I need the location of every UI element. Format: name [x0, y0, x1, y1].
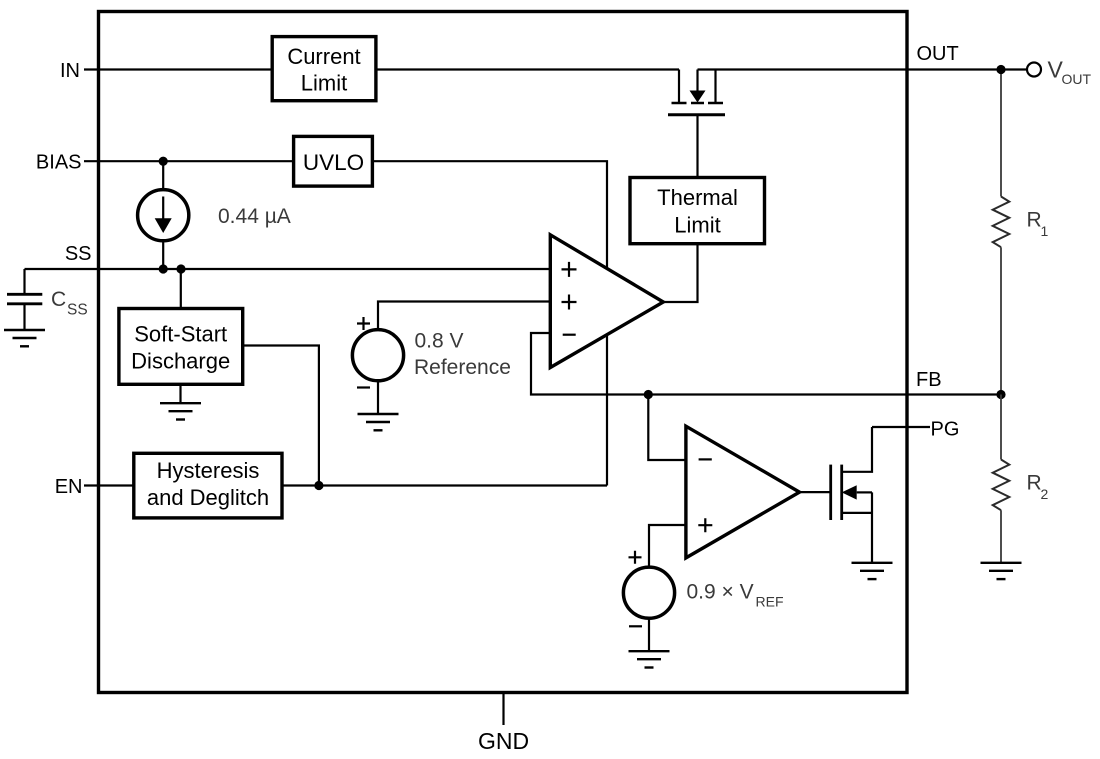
ground for V2	[648, 619, 650, 651]
node dot EN net junction	[314, 481, 323, 490]
block Thermal Limit	[630, 178, 765, 244]
ground for R2	[981, 563, 1022, 579]
transistor Q2 drain stub to PG line	[842, 427, 872, 472]
wire BIAS to current source to SS	[162, 161, 164, 269]
wire EN line	[84, 484, 607, 486]
plus input 1 of U1	[562, 262, 577, 277]
transistor Q1 bulk arrow	[696, 70, 698, 91]
svg-text:0.44 µA: 0.44 µA	[218, 205, 291, 228]
node dot FB to divider	[996, 390, 1005, 399]
svg-text:Reference: Reference	[414, 356, 511, 379]
plus sign of V1	[357, 317, 370, 330]
node dot OUT to divider	[996, 65, 1005, 74]
block Hysteresis and Deglitch	[134, 453, 282, 518]
svg-text:FB: FB	[916, 369, 942, 391]
transistor Q2 channel bar	[840, 465, 843, 520]
svg-text:SS: SS	[65, 243, 92, 265]
svg-text:GND: GND	[478, 728, 529, 754]
svg-text:Current: Current	[287, 44, 360, 69]
node dot SS junction 1	[159, 264, 168, 273]
svg-text:EN: EN	[55, 476, 83, 498]
svg-text:Hysteresis: Hysteresis	[157, 458, 260, 483]
plus sign of V2	[629, 551, 642, 564]
svg-text:IN: IN	[60, 60, 80, 82]
minus input of U1	[563, 334, 576, 336]
block Soft-Start Discharge	[119, 309, 243, 385]
svg-text:C: C	[51, 288, 66, 311]
op-amp U1 error amplifier	[550, 235, 663, 368]
wire Thermal Limit to pass FET gate	[696, 115, 698, 178]
resistor R1 bottom leg	[1000, 247, 1002, 394]
svg-text:SS: SS	[67, 302, 88, 319]
wire Q2 source to ground	[871, 492, 873, 562]
wire Soft-Start Discharge output to EN net	[243, 346, 319, 486]
comparator U2	[686, 426, 800, 558]
svg-text:1: 1	[1041, 223, 1049, 239]
terminal VOUT circle	[1027, 63, 1041, 77]
svg-text:2: 2	[1041, 486, 1049, 502]
minus input of U2	[699, 458, 712, 460]
node dot SS junction 2	[176, 264, 185, 273]
wire IN line	[84, 68, 679, 70]
wire U1 output to Thermal Limit	[663, 244, 697, 302]
wire U2 plus input to reference V2	[649, 525, 686, 568]
minus sign of V1	[357, 386, 370, 388]
resistor R1 top leg	[1000, 74, 1002, 197]
svg-text:UVLO: UVLO	[303, 150, 364, 175]
resistor R2 bottom leg	[1000, 510, 1002, 563]
transistor Q1 gate bar	[668, 113, 725, 116]
resistor R1 zigzag	[993, 197, 1010, 248]
svg-text:Limit: Limit	[301, 71, 347, 96]
ground for CSS	[4, 330, 45, 346]
current source arrow	[162, 197, 164, 221]
capacitor CSS wire	[23, 269, 25, 330]
svg-text:BIAS: BIAS	[36, 151, 82, 173]
transistor Q2 bulk arrow	[842, 485, 857, 499]
svg-text:REF: REF	[756, 594, 784, 610]
svg-text:OUT: OUT	[917, 43, 959, 65]
wire U2 output to PG FET gate	[800, 491, 831, 493]
svg-text:Soft-Start: Soft-Start	[134, 322, 227, 347]
resistor R2 zigzag	[993, 460, 1010, 511]
svg-text:and Deglitch: and Deglitch	[147, 485, 269, 510]
ground for Q2 source	[852, 563, 893, 579]
node dot FB junction	[644, 390, 653, 399]
wire FB to comparator inverting input	[648, 395, 686, 461]
resistor R2 top leg	[1000, 395, 1002, 460]
wire BIAS line and UVLO output down to EN net	[84, 161, 607, 485]
svg-text:0.8 V: 0.8 V	[415, 330, 464, 353]
transistor Q2 PG NMOS gate bar	[829, 465, 832, 520]
ground for Soft-Start Discharge	[179, 384, 181, 403]
svg-text:PG: PG	[931, 419, 960, 441]
wire SS line	[25, 268, 551, 270]
svg-text:OUT: OUT	[1062, 71, 1092, 87]
IC boundary box	[99, 12, 908, 693]
capacitor CSS plates	[7, 294, 42, 304]
block UVLO	[294, 136, 373, 186]
voltage source V1 0.8V reference circle	[352, 330, 403, 381]
transistor Q1 pass PMOS: source terminal	[678, 70, 680, 104]
svg-text:R: R	[1027, 209, 1042, 232]
current source I1 0.44uA circle	[138, 190, 189, 241]
block Current Limit	[272, 37, 376, 101]
wire SS to Soft-Start Discharge	[180, 269, 182, 309]
node dot BIAS junction	[159, 157, 168, 166]
transistor Q1 contact bars	[672, 102, 724, 105]
transistor Q2 source stub	[842, 512, 872, 514]
wire PG line	[872, 426, 930, 428]
svg-text:Discharge: Discharge	[131, 349, 230, 374]
svg-text:0.9 × V: 0.9 × V	[687, 581, 754, 604]
wire FB net: error-amp inverting input bend and FB line	[531, 333, 1001, 395]
svg-text:Limit: Limit	[674, 213, 720, 238]
minus sign of V2	[629, 625, 642, 627]
svg-text:Thermal: Thermal	[657, 185, 738, 210]
transistor Q1 drain terminal	[714, 70, 716, 104]
ground for V1	[377, 381, 379, 414]
pin GND stub	[502, 692, 504, 725]
svg-text:R: R	[1027, 472, 1042, 495]
wire OUT line to VOUT terminal	[698, 68, 1028, 70]
plus input of U2	[698, 518, 712, 532]
voltage source V2 0.9xVREF circle	[623, 567, 674, 618]
voltage source V1 0.8V reference wire to error amp	[378, 302, 550, 329]
plus input 2 of U1	[562, 295, 577, 310]
